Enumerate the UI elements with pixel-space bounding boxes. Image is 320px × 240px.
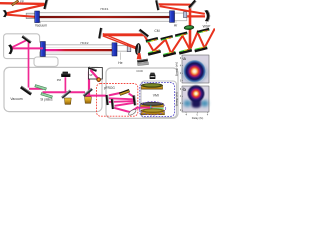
coupling bracket xyxy=(26,13,35,18)
svg-text:Vacuum: Vacuum xyxy=(35,24,47,28)
plot b frame xyxy=(182,86,209,112)
lens green (filter) xyxy=(184,25,194,30)
mirror in left box xyxy=(22,35,32,43)
fiber mount block HCF2 right xyxy=(112,43,117,56)
chirped mirror B3 xyxy=(179,48,192,54)
svg-text:Si plates: Si plates xyxy=(40,98,53,102)
box opening patch xyxy=(39,43,41,52)
Si plate 1 xyxy=(35,85,47,91)
power meter PM xyxy=(63,72,69,74)
svg-text:b: b xyxy=(183,87,186,92)
spectrometer box SP xyxy=(89,68,103,80)
svg-text:HCF2: HCF2 xyxy=(80,41,88,45)
svg-text:FP: FP xyxy=(20,0,24,4)
svg-text:pFROG: pFROG xyxy=(104,86,116,90)
electron line xyxy=(150,106,152,111)
focusing lens (ellipse optic) xyxy=(135,43,141,55)
fiber core HCF2 xyxy=(45,49,113,51)
pink beam diagonal in left box xyxy=(11,40,28,48)
VMI electrode MCP top xyxy=(141,85,162,89)
Si plate 2 xyxy=(41,93,53,99)
beam compressor output horizontal xyxy=(103,33,145,36)
mirror compressor left fold xyxy=(138,29,148,38)
beam fold to curved mirror xyxy=(6,5,46,14)
stub window xyxy=(183,12,186,18)
fiber core HCF1 xyxy=(36,16,173,18)
label He xyxy=(119,52,121,59)
fiber tube HCF2 xyxy=(45,45,113,54)
plot b teal lobes xyxy=(184,100,192,107)
vacuum box around HCF2 output (left pink box) xyxy=(4,34,40,59)
curved mirror left box xyxy=(8,44,13,54)
pFROG beam D-out xyxy=(131,108,137,112)
mirror steering (near vertical) xyxy=(98,28,102,39)
pink beam between electrodes xyxy=(136,107,153,109)
svg-text:Energy (eV): Energy (eV) xyxy=(174,62,178,76)
plot a blob xyxy=(182,62,207,83)
pFROG gold grating xyxy=(119,89,129,95)
plot a y ticks xyxy=(180,58,182,83)
pink beam up to SP xyxy=(88,72,90,96)
svg-text:CM: CM xyxy=(154,29,159,33)
svg-text:SP: SP xyxy=(89,74,93,77)
pink beam in SP xyxy=(91,70,99,79)
pink beam horizontal in left box xyxy=(12,47,44,49)
svg-text:HCF1: HCF1 xyxy=(100,7,108,11)
cell window xyxy=(127,45,131,52)
curved mirror input coupler xyxy=(3,10,7,17)
beam focusing cone upper xyxy=(103,34,136,48)
chirped mirror T3 xyxy=(197,28,210,34)
fiber tip orange xyxy=(97,78,101,82)
CCD camera icon xyxy=(150,73,155,75)
chirped mirror B4 xyxy=(194,46,207,52)
small pump box below pink box xyxy=(34,57,58,66)
plot b y ticks xyxy=(180,89,182,112)
mirror fold right xyxy=(188,0,196,9)
beam HCF1 exit xyxy=(187,15,206,17)
pFROG beam E-B xyxy=(129,93,134,97)
plot b x ticks xyxy=(186,112,208,113)
beam focusing cone lower xyxy=(103,36,136,49)
vacuum chamber 2 (pFROG/VMI) xyxy=(106,68,178,118)
mirror in SP box xyxy=(88,67,97,72)
pFROG beam A-B xyxy=(109,98,134,99)
compressor zigzag beam xyxy=(144,29,215,54)
label Ar xyxy=(175,21,177,23)
fiber mount block HCF1 exit xyxy=(170,11,175,23)
svg-text:PM: PM xyxy=(57,78,62,82)
chirped mirror T1 xyxy=(160,35,173,41)
beam down to grating xyxy=(137,53,142,59)
chirped mirror T0 xyxy=(146,37,159,43)
pFROG beam C-D xyxy=(114,108,131,112)
svg-text:Energy (eV): Energy (eV) xyxy=(174,92,178,106)
pFROG mirror D xyxy=(128,108,137,116)
vacuum chamber 1 xyxy=(4,67,102,111)
dashed box VMI xyxy=(140,83,175,117)
svg-text:He: He xyxy=(118,61,122,65)
label Vacuum (top) xyxy=(40,22,42,24)
laser input beam xyxy=(0,2,45,5)
beam into HCF1 xyxy=(6,15,36,17)
exit tube stub xyxy=(175,13,187,21)
gold mirror mount 2 xyxy=(85,97,92,104)
dashed ellipse detector region xyxy=(139,101,165,115)
grating base xyxy=(137,62,148,66)
fiber mount block HCF2 left xyxy=(40,42,45,57)
pFROG mirror B xyxy=(133,95,137,105)
plot b stem xyxy=(192,96,201,108)
pink beam seg1 xyxy=(29,88,43,90)
svg-text:Vacuum: Vacuum xyxy=(10,97,22,101)
label WSP xyxy=(205,22,207,24)
pFROG beam A-E xyxy=(109,93,121,96)
pFROG mirror C xyxy=(111,99,115,109)
beam vertical into compressor xyxy=(189,6,192,50)
svg-text:Delay (fs): Delay (fs) xyxy=(192,116,204,120)
pFROG beam B-A return xyxy=(109,100,134,103)
curved mirror WSP xyxy=(204,10,209,22)
mirror top-left fold xyxy=(43,0,48,9)
svg-text:VMI: VMI xyxy=(153,93,159,97)
VMI housing box xyxy=(141,81,177,118)
VMI electrode repeller bottom xyxy=(141,110,165,114)
plot b blob core xyxy=(187,84,205,102)
chirped mirror B2 xyxy=(163,51,176,57)
beam between top fold mirrors xyxy=(159,3,191,6)
svg-text:WSP: WSP xyxy=(203,24,211,28)
mirror fold left xyxy=(155,0,160,10)
dashed box pFROG xyxy=(97,84,138,117)
fiber tube HCF1 xyxy=(36,13,173,22)
VMI electrode middle xyxy=(141,104,164,108)
chirped mirror T2 xyxy=(175,32,188,38)
wedge element FP xyxy=(11,0,18,6)
pink beam seg2 xyxy=(43,91,86,93)
pink beam vertical down to chamber xyxy=(28,40,30,88)
grating plate xyxy=(137,59,148,63)
svg-text:CCD: CCD xyxy=(136,69,143,73)
beam WSP to fold mirror (shallow diagonal) xyxy=(160,6,205,14)
big fold mirror in chamber xyxy=(20,86,32,96)
pink beam up to PM xyxy=(64,77,66,92)
chirped mirror B1 xyxy=(148,49,161,55)
pFROG beam B-C xyxy=(115,103,134,106)
fiber mount block HCF1 entrance xyxy=(35,11,40,23)
plot a frame xyxy=(182,55,209,83)
pFROG mirror A xyxy=(105,95,109,105)
gold mirror mount 1 xyxy=(64,98,71,104)
pink beam seg3 xyxy=(85,95,106,97)
gas cell tube (He inlet) xyxy=(117,46,131,52)
